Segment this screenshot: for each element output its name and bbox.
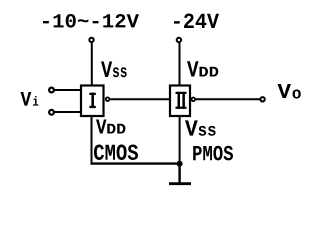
label: Vss block II supply pin [185,120,216,135]
label: -24V supply [174,14,219,29]
terminal: -10~-12V supply [89,38,93,42]
wire: block I output to block II input [110,98,169,100]
ground [169,182,191,185]
label: I inside block [89,93,95,108]
inverter block II (PMOS) body [170,86,190,117]
label: Vo output [278,84,301,99]
wire: output line to Vo terminal [196,98,260,100]
label: VDD block II supply pin [187,61,218,76]
label: II inside block [176,92,187,109]
wire: block I bottom lead [91,116,93,164]
label: Vss block I supply pin [101,62,127,78]
bubble: block I output [106,97,110,101]
wire: ground stem [178,164,180,184]
terminal: Vi upper [49,88,54,93]
wire: bottom horizontal rail [91,162,180,164]
label: -10~-12V supply [43,14,139,28]
terminal: Vo output [260,97,264,101]
wire: lower input stub [55,111,81,113]
label: VDD block I supply pin [96,120,125,134]
wire: right supply lead [179,43,181,86]
bubble: block II output [192,98,196,102]
inverter block I (CMOS) body [81,86,104,117]
terminal: -24V supply [177,38,181,42]
junction node [177,161,183,167]
label: PMOS [193,146,233,161]
terminal: Vi lower [49,110,54,115]
wire: upper input stub [55,89,81,91]
label: Vi input [21,92,39,106]
label: CMOS [94,145,138,161]
wire: left supply lead [91,43,93,86]
wire: block II bottom lead [179,116,181,164]
